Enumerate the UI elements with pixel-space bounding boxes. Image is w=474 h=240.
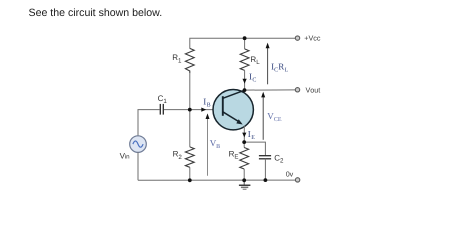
svg-text:1: 1 (178, 57, 182, 64)
resistor RE (229, 148, 249, 170)
current arrow IE (242, 129, 255, 141)
svg-text:C: C (252, 78, 256, 84)
svg-text:2: 2 (280, 158, 284, 165)
wire RL branch top (244, 38, 246, 49)
junction RL top (243, 36, 247, 40)
measure arrow VB (206, 113, 221, 175)
junction emitter node (242, 140, 246, 144)
svg-text:E: E (251, 135, 255, 141)
resistor R1 (172, 48, 194, 73)
wire RL bottom to collector node (244, 70, 246, 90)
junction base node (188, 108, 192, 112)
junction R2 ground (188, 178, 192, 182)
current arrow Ic (243, 72, 257, 84)
svg-text:CE: CE (274, 117, 282, 123)
wire RE bottom to ground rail (243, 169, 245, 180)
svg-text:2: 2 (178, 154, 182, 161)
wire R1 bottom to base node (189, 73, 191, 109)
svg-text:1: 1 (163, 98, 167, 105)
wire RE branch (243, 142, 245, 147)
svg-text:out: out (310, 85, 320, 94)
transistor Q1 (213, 90, 253, 130)
junction collector node (243, 88, 247, 92)
wire R2 bottom to ground rail (189, 167, 191, 180)
capacitor C1 (158, 94, 168, 115)
svg-text:0v: 0v (286, 170, 294, 179)
wire Vout rail (245, 89, 296, 91)
wire ground rail (138, 179, 295, 181)
terminal Vout (295, 85, 320, 94)
measure arrow IC RL (266, 43, 289, 85)
svg-text:L: L (285, 67, 289, 73)
source Vin (120, 136, 147, 161)
measure arrow VCE (261, 92, 282, 140)
wire top rail Vcc (190, 38, 295, 48)
capacitor C2 (259, 153, 284, 164)
svg-text:B: B (207, 102, 211, 108)
junction C2 ground (264, 178, 268, 182)
svg-text:B: B (216, 144, 220, 150)
resistor RL (240, 49, 260, 71)
wire C1 to base bar (164, 109, 223, 111)
junction RE ground (242, 178, 246, 182)
resistor R2 (173, 147, 195, 167)
wire Vin bottom stem (137, 152, 139, 180)
svg-text:L: L (256, 59, 260, 66)
terminal +Vcc (295, 33, 321, 42)
svg-text:E: E (234, 154, 238, 161)
svg-text:R: R (278, 61, 284, 71)
wire base node down to R2 (189, 110, 191, 147)
svg-text:in: in (125, 153, 130, 160)
svg-text:+Vcc: +Vcc (304, 33, 321, 42)
wire Vin top stem (138, 110, 160, 136)
wire C2 bottom to ground rail (264, 159, 266, 180)
ground (239, 180, 251, 190)
wire emitter to emitter node (243, 126, 245, 143)
wire emitter node rail to C2 (244, 142, 265, 155)
terminal 0v (286, 170, 300, 182)
current arrow IB (201, 96, 210, 111)
